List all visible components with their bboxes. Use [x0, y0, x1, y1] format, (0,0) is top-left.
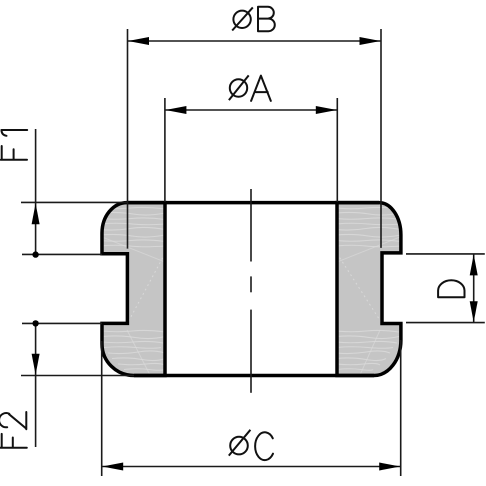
diameter symbol of OC [229, 430, 251, 456]
vertical centerline (dash-dot) [250, 189, 252, 393]
label D [438, 280, 464, 297]
dimension OC extension line left [101, 341, 103, 476]
dimension OA arrow left [165, 106, 186, 114]
diameter symbol of OA [229, 75, 249, 100]
dimension OA line [165, 109, 337, 111]
dimension OA arrow right [316, 106, 337, 114]
label C [255, 432, 273, 460]
label F2 [0, 412, 27, 448]
dimension F1 arrow [32, 203, 40, 224]
diameter symbol of OB [232, 7, 253, 30]
dimension D arrow up [470, 254, 478, 275]
dimension F2 arrow [32, 354, 40, 375]
dimension D line [473, 254, 475, 323]
left section mesh line [127, 254, 165, 324]
label F1 [1, 130, 27, 160]
dimension D arrow down [470, 301, 478, 322]
dimension F1 extension line bottom [22, 253, 102, 255]
left section rubber texture streaks [100, 207, 165, 370]
grommet right cross-section fill [337, 203, 401, 376]
dimension OC line [102, 466, 401, 468]
dimension D extension line bottom [406, 322, 485, 324]
dimension F1 dot [32, 251, 38, 257]
dimension OB arrow left [128, 37, 149, 45]
dimension OB line [128, 40, 382, 42]
bottom face edge line [134, 374, 374, 378]
label B [258, 7, 275, 31]
dimension OC extension line right [400, 340, 402, 476]
dimension OB extension line right [380, 29, 382, 248]
dimension OA extension line right [336, 98, 338, 202]
dimension OB arrow right [360, 37, 381, 45]
left cross-section outline [102, 203, 165, 376]
top face edge line [127, 201, 379, 205]
dimension OB extension line left [127, 29, 129, 249]
dimension OA extension line left [164, 98, 166, 202]
dimension OC arrow left [102, 463, 123, 471]
right section rubber texture streaks [336, 207, 401, 370]
dimension F1 extension line top [21, 201, 127, 203]
grommet left cross-section fill [102, 203, 165, 376]
right cross-section outline [337, 203, 401, 376]
dimension D extension line top [406, 253, 485, 255]
dimension OC arrow right [379, 463, 400, 471]
dimension F1 line [35, 129, 37, 255]
label A [251, 76, 271, 101]
dimension F2 line [35, 323, 37, 447]
dimension F2 dot [32, 320, 38, 326]
right section mesh line [337, 254, 382, 324]
dimension F2 extension line top [22, 322, 102, 324]
dimension F2 extension line bottom [21, 375, 134, 377]
